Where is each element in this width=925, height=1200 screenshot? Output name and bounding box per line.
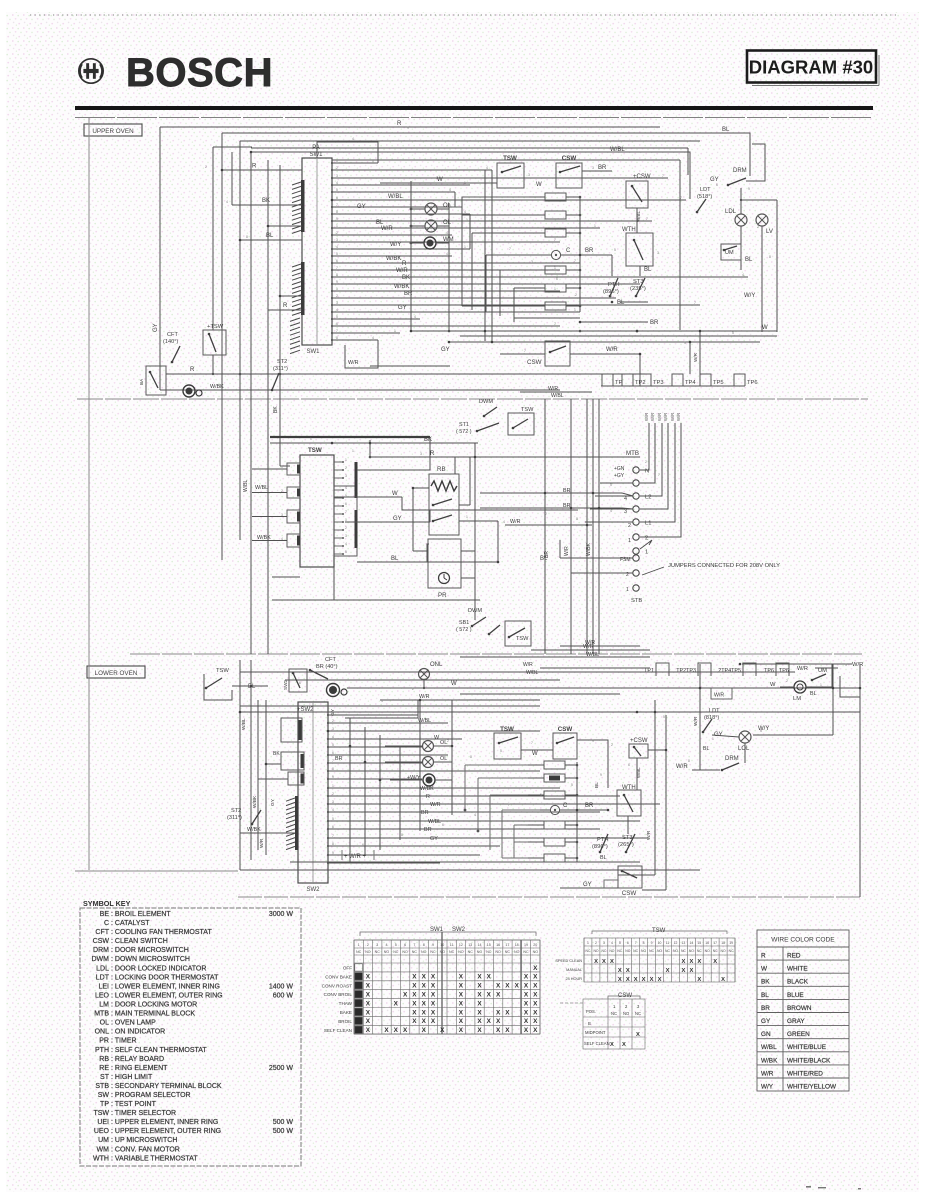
svg-text:7: 7 [509,247,511,251]
svg-text:1: 1 [345,458,347,462]
svg-text:TSW: TSW [503,155,517,162]
wire [528,857,544,859]
SW1 pin 7 stub [331,206,333,208]
wire resistor feeders [462,197,540,322]
wire CSW-WTH [636,208,638,233]
svg-text:LDT: LDT [709,708,720,714]
TSW lower-left lever [205,678,222,689]
svg-text:LM: LM [99,1002,109,1009]
element resistor L4 [544,821,565,829]
wire vertical x571 [570,399,572,654]
wire [429,510,431,522]
wire [459,504,470,506]
SW1 pin 22 stub [331,311,333,313]
wire SW2 pin 8 [328,770,540,772]
svg-text:W/BK: W/BK [210,384,224,390]
wire color code entries [761,953,837,1091]
svg-text:2: 2 [611,743,613,747]
svg-text:X: X [412,992,417,999]
svg-text:NO: NO [657,949,662,953]
svg-text:600 W: 600 W [273,993,294,1000]
wire SW2 pin 19 [328,862,440,864]
svg-text:W/R: W/R [381,226,393,232]
SW1 pin 5 stub [331,191,333,193]
wire W/R [570,353,640,355]
wire R mid [370,456,640,458]
svg-text:SW2: SW2 [283,680,288,690]
svg-text:X: X [524,1000,529,1007]
svg-text:TSW: TSW [216,668,229,674]
svg-text:NO: NO [440,950,446,954]
svg-text:NO: NO [705,949,710,953]
svg-text:W/R: W/R [676,413,681,421]
svg-text:11: 11 [666,941,670,945]
svg-text:5: 5 [663,715,665,719]
svg-text:W/R: W/R [585,640,595,646]
svg-text:: UPPER ELEMENT, OUTER RING: : UPPER ELEMENT, OUTER RING [111,1128,221,1135]
element resistor L1 [544,761,565,769]
wire [413,487,429,489]
svg-text:CONV BAKE: CONV BAKE [325,974,352,979]
svg-text:5: 5 [610,483,612,487]
svg-text:: LOCKING DOOR THERMOSTAT: : LOCKING DOOR THERMOSTAT [111,974,219,981]
svg-text:WM: WM [97,1146,110,1153]
wire SW1 pin 24 [332,325,560,327]
svg-text:3: 3 [592,166,594,170]
svg-text:NO: NO [477,950,483,954]
test point TP6 (upper) [734,374,758,386]
wire [566,305,580,307]
svg-text:X: X [459,1009,464,1016]
wire vertical x545 [544,399,546,654]
svg-text:5: 5 [332,743,334,747]
element resistor L3 [544,791,565,799]
svg-text:W/BL: W/BL [526,670,538,676]
svg-text:RE: RE [99,1065,109,1072]
svg-text:X: X [496,983,501,990]
svg-text:BE: BE [100,911,110,918]
secondary terminal block STB [620,555,642,604]
timer selector TSW box (upper) [497,155,524,188]
wire vertical x599 [598,399,600,654]
wire vertical x587 [586,399,588,654]
svg-text:2: 2 [336,166,338,170]
svg-text:6: 6 [442,823,444,827]
svg-text:X: X [634,977,638,983]
svg-text:1: 1 [436,176,438,180]
svg-text:X: X [477,974,482,981]
svg-text:5: 5 [540,793,542,797]
svg-text:DRM: DRM [93,947,109,954]
wire W long bottom [411,330,777,332]
svg-text:X: X [533,1009,538,1016]
wire [540,254,551,256]
wire [749,170,751,176]
svg-text:W/BL: W/BL [241,718,247,730]
svg-text:TP6: TP6 [764,668,774,674]
svg-text:15: 15 [697,941,701,945]
svg-text:1: 1 [628,538,631,544]
wire [642,889,666,891]
SW1 pin 12 stub [331,241,333,243]
svg-text:NO: NO [384,950,390,954]
svg-text:6: 6 [627,941,629,945]
svg-text:BL: BL [761,992,769,999]
wire [454,192,456,207]
SW table X marks [366,965,538,1034]
wire SW2 pin 2 [328,722,448,724]
SW2 inner divider [312,702,314,883]
svg-text:(896°): (896°) [592,844,608,850]
svg-text:BR: BR [335,756,343,762]
timer selector TSW block [300,447,334,567]
svg-text:ONL: ONL [95,1029,110,1036]
SW1 pin 1 stub [331,162,333,164]
svg-text:UM: UM [98,1137,109,1144]
svg-text:8: 8 [688,759,690,763]
svg-text:2: 2 [757,225,759,229]
wire SW2 pin 10 [328,787,560,789]
svg-text:LDL: LDL [96,965,109,972]
wire [780,686,794,688]
svg-text:5: 5 [336,188,338,192]
svg-text:NC: NC [486,950,492,954]
PTH lever (upper) [609,278,618,297]
SW1 SW2 header numbers [356,943,538,954]
wire W [334,496,402,498]
cooling fan thermostat CFT [163,332,178,345]
high limit ST1 [456,422,472,435]
svg-text:9: 9 [748,187,750,191]
svg-text:X: X [618,977,622,983]
wire [469,457,471,505]
wire vertical x680 [679,160,681,330]
wire [435,779,452,781]
svg-text:DIAGRAM #30: DIAGRAM #30 [749,57,873,78]
SW1 pin 25 stub [331,332,333,334]
svg-text:7: 7 [336,266,338,270]
TSW contact bar A [355,462,358,498]
svg-text:W/BK: W/BK [386,256,401,262]
svg-text:W/R: W/R [676,764,688,770]
svg-text:W/BK: W/BK [257,535,271,541]
wire right frame upper [776,200,778,332]
wire [454,457,456,474]
svg-text:BK: BK [273,406,279,413]
svg-text:BOSCH: BOSCH [126,51,273,95]
element resistor L6 [544,854,565,862]
WTH lever (upper) [633,239,643,260]
wire TP row base [640,671,795,673]
svg-text:BA: BA [139,378,144,385]
wire TP base (upper) [601,385,745,387]
wire [530,305,545,307]
wire SW1 pin 23 [332,318,420,320]
svg-text:+TSW: +TSW [207,324,224,330]
svg-text:NC: NC [375,950,381,954]
SW1 pin 18 stub [331,283,333,285]
variable thermostat WTH (upper) [622,227,653,266]
wire BR bottom [580,321,648,323]
wire [268,225,302,227]
svg-text:R: R [283,303,288,309]
upper/middle divider wire [77,398,868,400]
wire bottom of upper left [160,389,460,391]
svg-text:GY: GY [430,836,438,842]
ST1 lever [476,423,499,432]
wire W/BK [240,832,295,834]
svg-text:NO: NO [641,949,646,953]
wire [540,667,650,669]
svg-text:3: 3 [345,534,347,538]
locking door thermostat LDT (upper) [697,187,712,200]
svg-text:W/BL: W/BL [388,194,403,200]
test point TP4 (upper) [672,374,696,386]
svg-text:: HIGH LIMIT: : HIGH LIMIT [111,1074,153,1081]
svg-text:W/BK: W/BK [394,284,409,290]
high limit SB1 (572) [456,620,472,633]
SW1 pin 2 stub [331,169,333,171]
high limit ST2 (lower) [227,808,242,821]
svg-text:X: X [689,968,693,974]
svg-text:4: 4 [446,252,448,256]
svg-text:X: X [496,992,501,999]
wire [469,214,471,249]
svg-text:X: X [626,968,630,974]
wire [530,269,545,271]
wire [528,764,544,766]
SW1 left contact bar B [301,262,305,315]
svg-text:15: 15 [487,943,491,947]
svg-text:BK: BK [262,198,270,204]
svg-text:X: X [602,959,606,965]
svg-text:W/BK: W/BK [247,827,261,833]
switch box SW2 tap [289,669,307,692]
svg-text:R: R [761,953,766,960]
DRM lower lever [721,763,739,771]
svg-text:9: 9 [332,775,334,779]
svg-text:X: X [366,974,371,981]
wire W bus [400,182,497,184]
svg-text:7: 7 [634,280,636,284]
svg-text:X: X [431,974,436,981]
svg-text:C: C [104,920,109,927]
svg-text:2: 2 [332,792,334,796]
svg-text:7: 7 [554,322,556,326]
svg-text:8: 8 [470,755,472,759]
wire UM frame [840,676,860,697]
self clean thermostat PTH (upper) [603,282,620,295]
svg-text:: RELAY BOARD: : RELAY BOARD [111,1056,164,1063]
svg-text:18: 18 [721,941,725,945]
oven lamp OL [425,203,437,215]
wire [413,550,428,552]
wire [627,816,629,834]
svg-text:MIDPOINT: MIDPOINT [585,1030,606,1035]
svg-text:LDL: LDL [725,209,737,215]
svg-text:3: 3 [449,204,451,208]
ST3 lever (upper) [635,278,645,297]
svg-text:NO: NO [623,1011,630,1016]
svg-text:UEO: UEO [94,1128,110,1135]
wire [459,520,498,522]
svg-text:X: X [366,1000,371,1007]
svg-text:2: 2 [645,536,648,542]
scan speck marks [806,1186,861,1190]
svg-text:CSW: CSW [622,890,637,897]
program selector SW1 (upper) [302,145,332,355]
wire [687,148,689,175]
svg-text:MANUAL: MANUAL [566,968,582,972]
svg-text:4: 4 [336,308,338,312]
SW1 pin 17 stub [331,276,333,278]
svg-text:: DOOR MICROSWITCH: : DOOR MICROSWITCH [111,947,189,954]
svg-text:NC: NC [635,1011,641,1016]
wire vertical x700 upper [699,331,701,386]
wire vertical bus x280 [279,165,281,466]
wire W/R [505,524,592,526]
svg-text:2: 2 [786,679,788,683]
svg-text:6: 6 [716,183,718,187]
svg-text:7: 7 [531,741,533,745]
svg-text:500 W: 500 W [273,1128,294,1135]
svg-text:SW2: SW2 [306,887,320,893]
label W/R boxed (lower right) [711,688,732,699]
svg-text:PR: PR [99,1038,109,1045]
svg-text:W: W [392,491,398,497]
svg-text:9: 9 [332,851,334,855]
CSW small lever [633,746,641,756]
fan assembly box [146,366,166,395]
svg-text:4: 4 [336,245,338,249]
wire [620,301,648,303]
svg-text:5: 5 [332,817,334,821]
wire BL to DRM [222,133,750,170]
svg-text:X: X [366,1027,371,1034]
svg-text:8: 8 [576,517,578,521]
svg-text:4: 4 [332,808,334,812]
wire BK vertical [279,374,281,466]
timer selector table TSW [592,931,727,934]
svg-text:7: 7 [694,301,696,305]
wire [740,260,742,270]
svg-text:2: 2 [336,231,338,235]
svg-text:R: R [397,121,402,127]
wire SW1 pin 2 [332,169,492,171]
locking door thermostat LDT (lower) [704,708,720,721]
svg-text:4: 4 [345,542,347,546]
element resistor U6 [545,302,566,310]
svg-text:R: R [426,794,430,800]
svg-text:W/R: W/R [693,716,699,726]
svg-text:2: 2 [336,294,338,298]
wire BL [232,685,268,687]
MTB feeder staircase 2 [640,423,681,537]
svg-text:8: 8 [332,842,334,846]
wire long y870 [240,869,700,871]
svg-text:5: 5 [336,315,338,319]
wire [402,497,578,510]
wire vertical x258 low [257,700,259,850]
wire bottom mid [272,599,480,601]
svg-text:3: 3 [281,513,283,517]
svg-text:4: 4 [464,210,466,214]
svg-text:X: X [422,1027,427,1034]
TSW lever (upper) [501,166,521,173]
svg-text:7: 7 [574,259,576,263]
svg-text:14: 14 [690,941,694,945]
test point TP2 (upper) [622,374,646,386]
svg-text:X: X [524,983,529,990]
svg-text:6: 6 [445,487,447,491]
LOWER OVEN section label [87,666,145,678]
element resistor U3 [545,229,566,237]
wire SW1 pin 22 [332,311,580,313]
wire long y712 [240,711,860,713]
svg-text:4: 4 [226,200,228,204]
svg-text:: PROGRAM SELECTOR: : PROGRAM SELECTOR [111,1092,191,1099]
svg-text:1: 1 [394,329,396,333]
svg-text:NC: NC [412,950,418,954]
SW1 left pin hatches A [292,182,301,233]
svg-text:X: X [681,959,685,965]
catalyst C (upper) [551,248,571,260]
svg-text:X: X [422,983,427,990]
svg-text:1: 1 [332,711,334,715]
svg-text:3: 3 [332,800,334,804]
svg-text:9: 9 [651,941,653,945]
svg-text:NO: NO [458,950,464,954]
svg-text:X: X [459,1000,464,1007]
svg-text:4: 4 [281,537,283,541]
svg-text:7: 7 [332,759,334,763]
svg-text:NC: NC [611,1011,617,1016]
wire bus y160 [332,159,680,161]
svg-text:X: X [477,1000,482,1007]
svg-text:1: 1 [332,859,334,863]
svg-text:NC: NC [649,949,654,953]
wire into MTB L2 [595,495,633,497]
svg-text:TSW: TSW [652,928,666,934]
svg-text:8: 8 [336,273,338,277]
svg-text:8: 8 [643,941,645,945]
wire [689,342,691,374]
wire to OL2 [411,225,425,227]
svg-text:7: 7 [336,329,338,333]
svg-text:9: 9 [592,739,594,743]
relay board RB [429,466,459,535]
PTH lower lever [599,834,608,853]
high limit ST3 (upper) [630,279,646,292]
svg-text:X: X [440,1027,445,1034]
svg-text:C: C [563,803,568,809]
wire CSW out BR [582,170,612,172]
svg-text:X: X [366,1018,371,1025]
svg-text:JUMPERS CONNECTED FOR 208V ONL: JUMPERS CONNECTED FOR 208V ONLY [668,563,780,569]
program selector SW2 (lower) [297,702,328,893]
wire [559,540,561,558]
svg-text:5: 5 [395,943,397,947]
wire [285,679,560,681]
svg-text:L1: L1 [645,521,651,527]
SW1 pin 23 stub [331,318,333,320]
svg-text:LEI: LEI [98,983,109,990]
wire [528,777,544,779]
wire [689,163,691,199]
svg-text:2: 2 [645,460,647,464]
svg-text:6: 6 [362,843,364,847]
svg-text:SW2: SW2 [452,927,466,933]
